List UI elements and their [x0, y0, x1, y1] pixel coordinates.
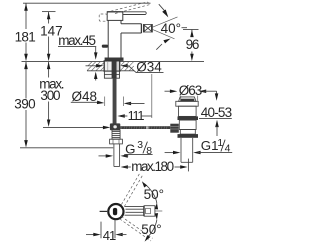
lever cap — [107, 12, 123, 21]
lever bar — [123, 12, 146, 15]
dimension max.300 vertical line — [48, 62, 50, 78]
deck reference line — [22, 60, 104, 62]
top reference line (raised lever tip level) — [23, 2, 151, 4]
lever end cap (bottom view) — [144, 206, 155, 217]
spout — [121, 24, 142, 33]
lever arm (bottom view) — [125, 205, 144, 207]
threaded shank through deck — [104, 61, 120, 71]
dashed lever raised 50deg — [121, 172, 140, 204]
hose coupling nut — [110, 139, 123, 144]
drain step — [180, 130, 195, 135]
drain locknut — [178, 134, 199, 138]
dashed raised lever — [111, 2, 147, 11]
svg-text:8: 8 — [146, 146, 152, 157]
dimension diam63 — [165, 90, 173, 92]
svg-text:390: 390 — [14, 97, 35, 112]
deck cross-section hatching left — [87, 62, 104, 71]
svg-text:300: 300 — [40, 88, 60, 103]
svg-text:40°: 40° — [161, 21, 181, 36]
dimension 147 tick and vertical line — [42, 11, 56, 13]
svg-text:96: 96 — [186, 37, 199, 52]
dimension 390 vertical line — [25, 62, 27, 99]
lower 50deg arc — [147, 220, 157, 239]
drain body — [179, 120, 196, 129]
svg-text:G1: G1 — [201, 138, 219, 153]
svg-text:4: 4 — [225, 144, 231, 155]
drain dome cap — [179, 97, 196, 101]
extension line from aerator tip — [151, 74, 153, 118]
lever centerline — [155, 210, 162, 212]
pull rod — [113, 78, 117, 123]
svg-text:3: 3 — [137, 140, 143, 151]
aerator — [143, 25, 152, 33]
rod clamp block — [170, 124, 179, 133]
threaded transfer rod to drain — [120, 126, 170, 129]
shank lower section — [104, 71, 119, 78]
pull rod inside shank — [112, 61, 117, 78]
spout stub (bottom view) — [100, 210, 108, 212]
dimension diam34 — [86, 65, 100, 67]
deck cross-section hatching right — [120, 62, 134, 71]
drain neck — [179, 106, 197, 116]
threaded stub below tee — [112, 130, 120, 139]
svg-text:Ø63: Ø63 — [179, 83, 202, 98]
hose nipple — [113, 144, 115, 167]
label G1 1/4 — [165, 152, 176, 154]
upper 50deg arc — [144, 184, 157, 204]
svg-text:50°: 50° — [144, 187, 164, 202]
svg-text:max.180: max.180 — [131, 159, 173, 174]
svg-text:Ø48: Ø48 — [72, 89, 98, 104]
faucet base flange — [105, 58, 124, 61]
lever hub (bottom view) — [108, 204, 123, 219]
dimension 181 vertical line — [25, 3, 27, 29]
dimension 111 — [117, 114, 124, 118]
drain tailpiece — [180, 138, 182, 162]
dashed lever lowered 50deg — [121, 216, 152, 238]
dimension max.180 — [121, 165, 128, 169]
svg-text:max.45: max.45 — [58, 33, 95, 48]
rod tee joint — [110, 123, 120, 130]
lower 40deg arrow — [156, 44, 162, 50]
dimension 96 — [183, 29, 199, 31]
upper 40deg arrow — [159, 4, 165, 11]
dimension G3/8 arrows — [99, 155, 108, 157]
drain pull-rod knob — [102, 45, 108, 48]
svg-text:41: 41 — [103, 228, 116, 243]
drain o-ring seal — [178, 116, 199, 120]
aerator swivel lines — [152, 17, 177, 27]
svg-text:181: 181 — [15, 29, 36, 44]
dashed raised cap — [99, 14, 107, 21]
svg-text:40-53: 40-53 — [201, 105, 232, 120]
dimension 41 — [100, 222, 102, 239]
svg-text:50°: 50° — [141, 222, 161, 237]
faucet body — [107, 21, 109, 58]
drain flange — [176, 101, 198, 106]
